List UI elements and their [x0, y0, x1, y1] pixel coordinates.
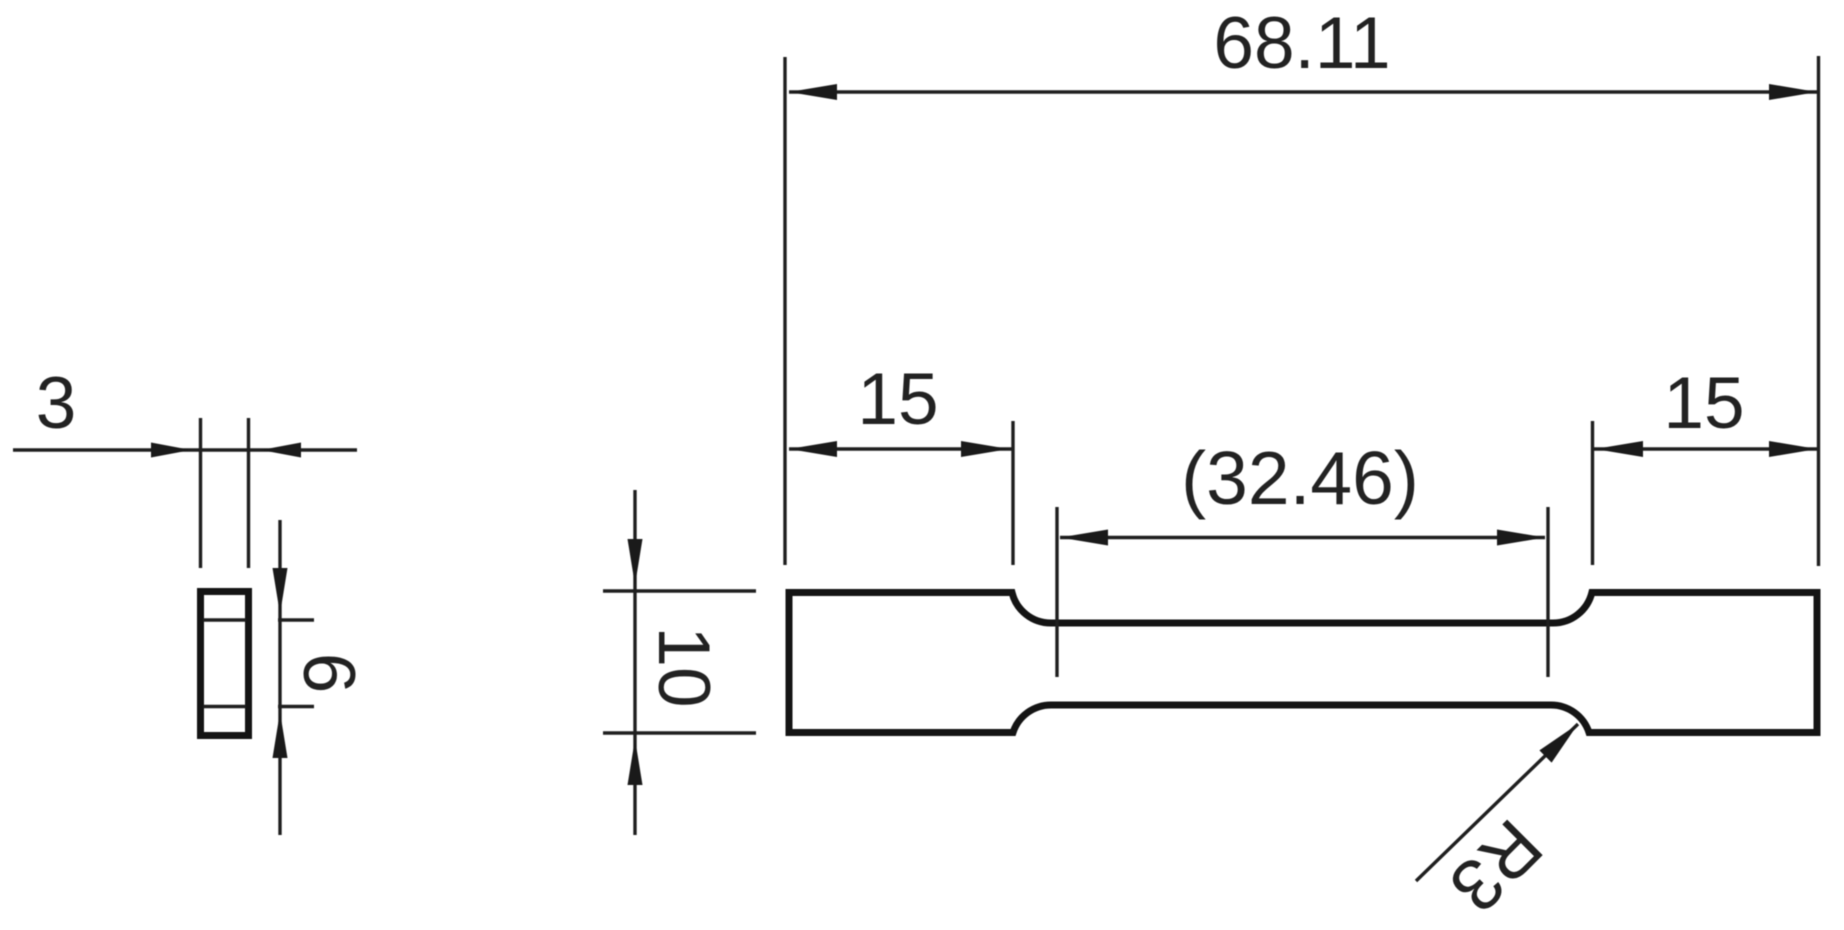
dimension 3 extension line right — [247, 418, 250, 568]
svg-text:15: 15 — [857, 359, 938, 440]
specimen dog-bone outline — [789, 593, 1817, 733]
dimension 6 tick bottom — [278, 705, 314, 708]
dimension 68.11 arrow left — [789, 84, 837, 100]
dimension 32.46 arrow right — [1497, 530, 1545, 546]
side view plate outline — [201, 592, 249, 736]
svg-text:R3: R3 — [1434, 804, 1557, 927]
dimension 15 right arrow left — [1595, 441, 1643, 457]
svg-text:15: 15 — [1663, 363, 1744, 444]
dimension 32.46 extension line left — [1055, 507, 1058, 677]
dimension 15 left extension line right — [1011, 421, 1014, 565]
svg-text:68.11: 68.11 — [1213, 3, 1390, 84]
side view gauge top projection line — [203, 618, 246, 621]
dimension 10 arrow top — [628, 539, 643, 585]
dimension 6 tick top — [278, 618, 314, 621]
dimension 68.11 extension line left — [783, 57, 786, 565]
dimension 3 extension line left — [199, 418, 202, 568]
dimension 6 arrow top — [273, 568, 288, 614]
dimension 32.46 line — [1060, 536, 1545, 539]
svg-text:10: 10 — [643, 626, 724, 707]
svg-text:6: 6 — [288, 653, 369, 694]
dimension 15 left line — [789, 447, 1013, 450]
dimension 15 right extension line left — [1591, 421, 1594, 565]
dimension 10 extension line bottom — [603, 731, 756, 734]
side view gauge bottom projection line — [203, 705, 246, 708]
svg-text:3: 3 — [36, 363, 77, 444]
dimension 10 extension line top — [603, 589, 756, 592]
dimension 3 arrow right — [261, 443, 301, 458]
dimension 6 line vertical — [278, 520, 281, 835]
dimension 3 line — [13, 448, 357, 451]
dimension 6 arrow bottom — [273, 712, 288, 758]
dimension 68.11 line — [789, 90, 1817, 93]
dimension 15 right arrow right — [1769, 441, 1817, 457]
dimension 3 arrow left — [151, 443, 191, 458]
dimension 68.11 arrow right — [1769, 84, 1817, 100]
dimension 32.46 arrow left — [1060, 530, 1108, 546]
dimension 15 left arrow left — [789, 441, 837, 457]
dimension 10 line vertical — [633, 490, 636, 835]
dimension 10 arrow bottom — [628, 739, 643, 785]
dimension 68.11 extension line right — [1817, 56, 1820, 566]
leader R3 arrow — [1539, 724, 1578, 763]
svg-text:(32.46): (32.46) — [1181, 436, 1419, 520]
dimension 15 right line — [1593, 447, 1819, 450]
dimension 32.46 extension line right — [1546, 507, 1549, 677]
leader R3 line — [1416, 724, 1578, 881]
dimension 15 left arrow right — [961, 441, 1009, 457]
